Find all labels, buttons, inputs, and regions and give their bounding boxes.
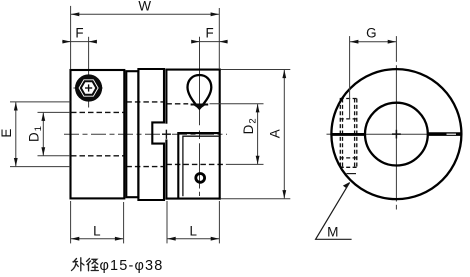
hub2 bottom edge xyxy=(165,198,220,200)
svg-text:M: M xyxy=(327,224,338,239)
hub2 right edge xyxy=(219,69,221,200)
hidden line D2 bottom (hub2 bore) xyxy=(166,163,226,165)
svg-text:G: G xyxy=(366,25,376,40)
bore circle (end view) xyxy=(365,103,428,166)
left slit (end view) xyxy=(331,133,365,136)
clamp screw hole circle on hub2 block xyxy=(196,174,205,183)
svg-text:F: F xyxy=(75,25,83,40)
disc spacer ring outline xyxy=(126,71,138,197)
svg-text:W: W xyxy=(138,0,151,14)
caption text: outer diameter range xyxy=(72,258,99,271)
hub2 screw vertical center line xyxy=(199,37,201,196)
axis center line (side view) xyxy=(64,133,227,135)
hub1 outline xyxy=(71,70,125,198)
svg-text:2: 2 xyxy=(247,118,258,123)
end view vertical center line xyxy=(395,36,397,209)
hub2 left face upper segment xyxy=(165,69,167,124)
hidden line E bottom (disc) xyxy=(126,166,164,168)
svg-text:F: F xyxy=(206,25,214,40)
clamp screw head (hex socket) on hub1 xyxy=(75,74,102,101)
hidden line D2 top (hub2 bore) xyxy=(166,103,188,105)
hidden clamp screw hole (end view) dashed lines xyxy=(340,99,358,168)
svg-text:1: 1 xyxy=(33,126,44,131)
dimension W xyxy=(71,6,220,69)
hub1 screw horizontal center line xyxy=(73,87,102,89)
svg-text:φ15-φ38: φ15-φ38 xyxy=(100,258,164,274)
dimension A xyxy=(221,70,290,199)
kanji KEI (diameter) xyxy=(87,259,91,271)
hub2 clamp block inner slot lines xyxy=(183,136,220,196)
disc outline with slot notch xyxy=(138,69,164,200)
right slit (end view) xyxy=(428,132,462,136)
dimension D1 xyxy=(38,112,71,155)
dimension L left xyxy=(71,201,124,243)
hidden line D1 top (hub1 bore) xyxy=(71,111,124,113)
leader line M xyxy=(316,182,352,240)
outer circle (end view) xyxy=(331,69,461,199)
hub2 clamp block outline xyxy=(178,133,219,199)
svg-text:D: D xyxy=(241,124,256,134)
dimension F left xyxy=(62,41,94,43)
dimension L right xyxy=(167,201,219,243)
hidden screw tip tick (end view) xyxy=(347,173,357,175)
svg-text:A: A xyxy=(268,129,283,138)
svg-text:L: L xyxy=(189,223,196,238)
dimension F right xyxy=(192,41,228,43)
dimension E xyxy=(10,102,70,167)
center mark cross at disc/hub2 joint xyxy=(165,130,167,139)
hub1 screw vertical center line xyxy=(88,37,90,108)
dimension D2 xyxy=(210,104,264,165)
hub2 left face lower segment xyxy=(165,139,167,199)
svg-text:E: E xyxy=(0,129,14,138)
svg-text:L: L xyxy=(93,223,100,238)
hidden line E top (disc) xyxy=(126,101,164,103)
hidden line D1 bottom (hub1 bore) xyxy=(71,155,124,157)
end view horizontal center line xyxy=(327,133,428,135)
dimension G xyxy=(350,36,396,119)
kanji GAI (outer) xyxy=(72,259,79,271)
clamp screw teardrop hole on hub2 xyxy=(188,75,212,109)
center mark cross (end view) xyxy=(395,130,397,139)
hub2 top edge xyxy=(165,69,220,71)
svg-text:D: D xyxy=(27,132,42,142)
